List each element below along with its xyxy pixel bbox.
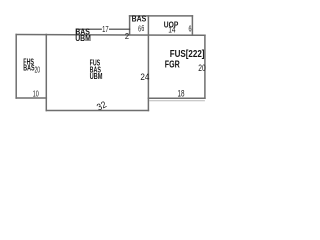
svg-text:18: 18 [178, 88, 185, 99]
svg-text:BAS: BAS [23, 64, 35, 73]
svg-text:2: 2 [125, 31, 129, 41]
wire top edge of small BAS box and UOP porch [130, 15, 193, 17]
wire sliver top edge left segment [77, 28, 102, 30]
wire faint echo line under garage block [149, 100, 205, 102]
wire sliver left jog [76, 29, 78, 34]
svg-text:24: 24 [140, 71, 149, 82]
svg-text:6: 6 [141, 23, 144, 33]
svg-text:10: 10 [33, 89, 39, 98]
wire small BAS box left wall [129, 16, 131, 35]
wire FHS left wall [15, 35, 17, 99]
svg-text:FGR: FGR [165, 59, 181, 70]
wire main top wall [16, 34, 205, 37]
wire garage-block bottom wall [148, 97, 205, 99]
svg-text:17: 17 [102, 25, 109, 34]
svg-text:BAS: BAS [132, 15, 147, 24]
svg-text:20: 20 [198, 62, 205, 73]
svg-text:6: 6 [189, 24, 192, 34]
wire FHS bottom wall [16, 97, 46, 99]
svg-text:14: 14 [168, 25, 176, 35]
wire UOP right wall [191, 16, 193, 35]
wire garage right wall [204, 35, 206, 98]
svg-text:UBM: UBM [75, 34, 91, 43]
wire main / garage shared wall [147, 16, 149, 111]
wire main block bottom wall [46, 110, 148, 112]
node dim 32 main bottom (rotated) [95, 98, 108, 112]
svg-text:20: 20 [35, 66, 41, 75]
wire FHS / main shared wall [45, 35, 47, 111]
svg-text:UBM: UBM [90, 72, 103, 81]
wire sliver top edge right segment [110, 28, 130, 30]
svg-text:FUS[222]: FUS[222] [170, 49, 205, 60]
